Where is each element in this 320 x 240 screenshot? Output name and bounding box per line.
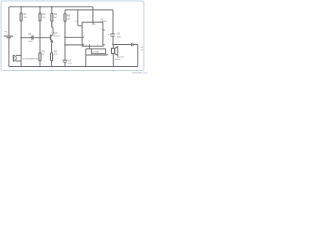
resistor R4 — [51, 7, 53, 14]
wire IC pin row 2 — [65, 44, 82, 46]
card border — [1, 1, 144, 71]
wire bypass elbow into IC — [78, 10, 82, 26]
svg-text:Speaker: Speaker — [117, 56, 125, 58]
wire IC pin row 1 — [65, 36, 82, 38]
wire under battery box — [86, 54, 108, 55]
wire emitter down to R5 — [51, 42, 54, 53]
junction dots — [20, 6, 114, 67]
wire bottom rail — [9, 66, 138, 68]
wire mic column — [20, 38, 22, 67]
battery box — [91, 49, 105, 54]
speaker LS1 — [112, 45, 114, 49]
watermark — [132, 71, 148, 75]
speaker output rail — [113, 44, 131, 46]
wire collector up to R4 — [52, 21, 53, 34]
capacitor C4 — [112, 10, 114, 34]
svg-text:BC547: BC547 — [54, 35, 61, 37]
resistor R3 — [39, 38, 41, 53]
resistor R2 — [39, 7, 41, 13]
node rail mic/C1/base — [21, 37, 31, 39]
mic stubs — [16, 55, 21, 61]
resistor R5 — [51, 53, 53, 61]
capacitor C5 — [131, 43, 133, 46]
svg-text:8Ohm: 8Ohm — [115, 59, 121, 61]
wire left edge lower — [8, 38, 10, 66]
wire rail B (output) — [65, 9, 113, 11]
wire IC pin6 drop — [92, 7, 94, 22]
svg-text:CONDENSER MIC: CONDENSER MIC — [22, 59, 40, 61]
resistor R1 — [20, 7, 22, 13]
svg-text:9V BAT: 9V BAT — [93, 51, 100, 54]
IC U1 box — [82, 22, 103, 46]
transistor Q1 — [50, 35, 52, 41]
svg-text:10uF: 10uF — [28, 41, 33, 43]
svg-text:circuitstoday: circuitstoday — [132, 71, 148, 74]
wire IC bottom stub — [89, 46, 91, 49]
wire top rail A — [9, 6, 93, 8]
resistor R6 — [64, 10, 66, 14]
labels — [4, 13, 144, 65]
capacitor C1 — [31, 35, 33, 39]
IC pin stubs — [82, 22, 105, 46]
svg-text:LM386: LM386 — [100, 21, 107, 23]
capacitor C3 — [63, 59, 68, 61]
wire left edge upper — [8, 7, 10, 36]
battery B1 — [4, 35, 13, 37]
wire battery box left leg — [86, 49, 92, 67]
condenser mic MIC1 — [13, 55, 15, 62]
